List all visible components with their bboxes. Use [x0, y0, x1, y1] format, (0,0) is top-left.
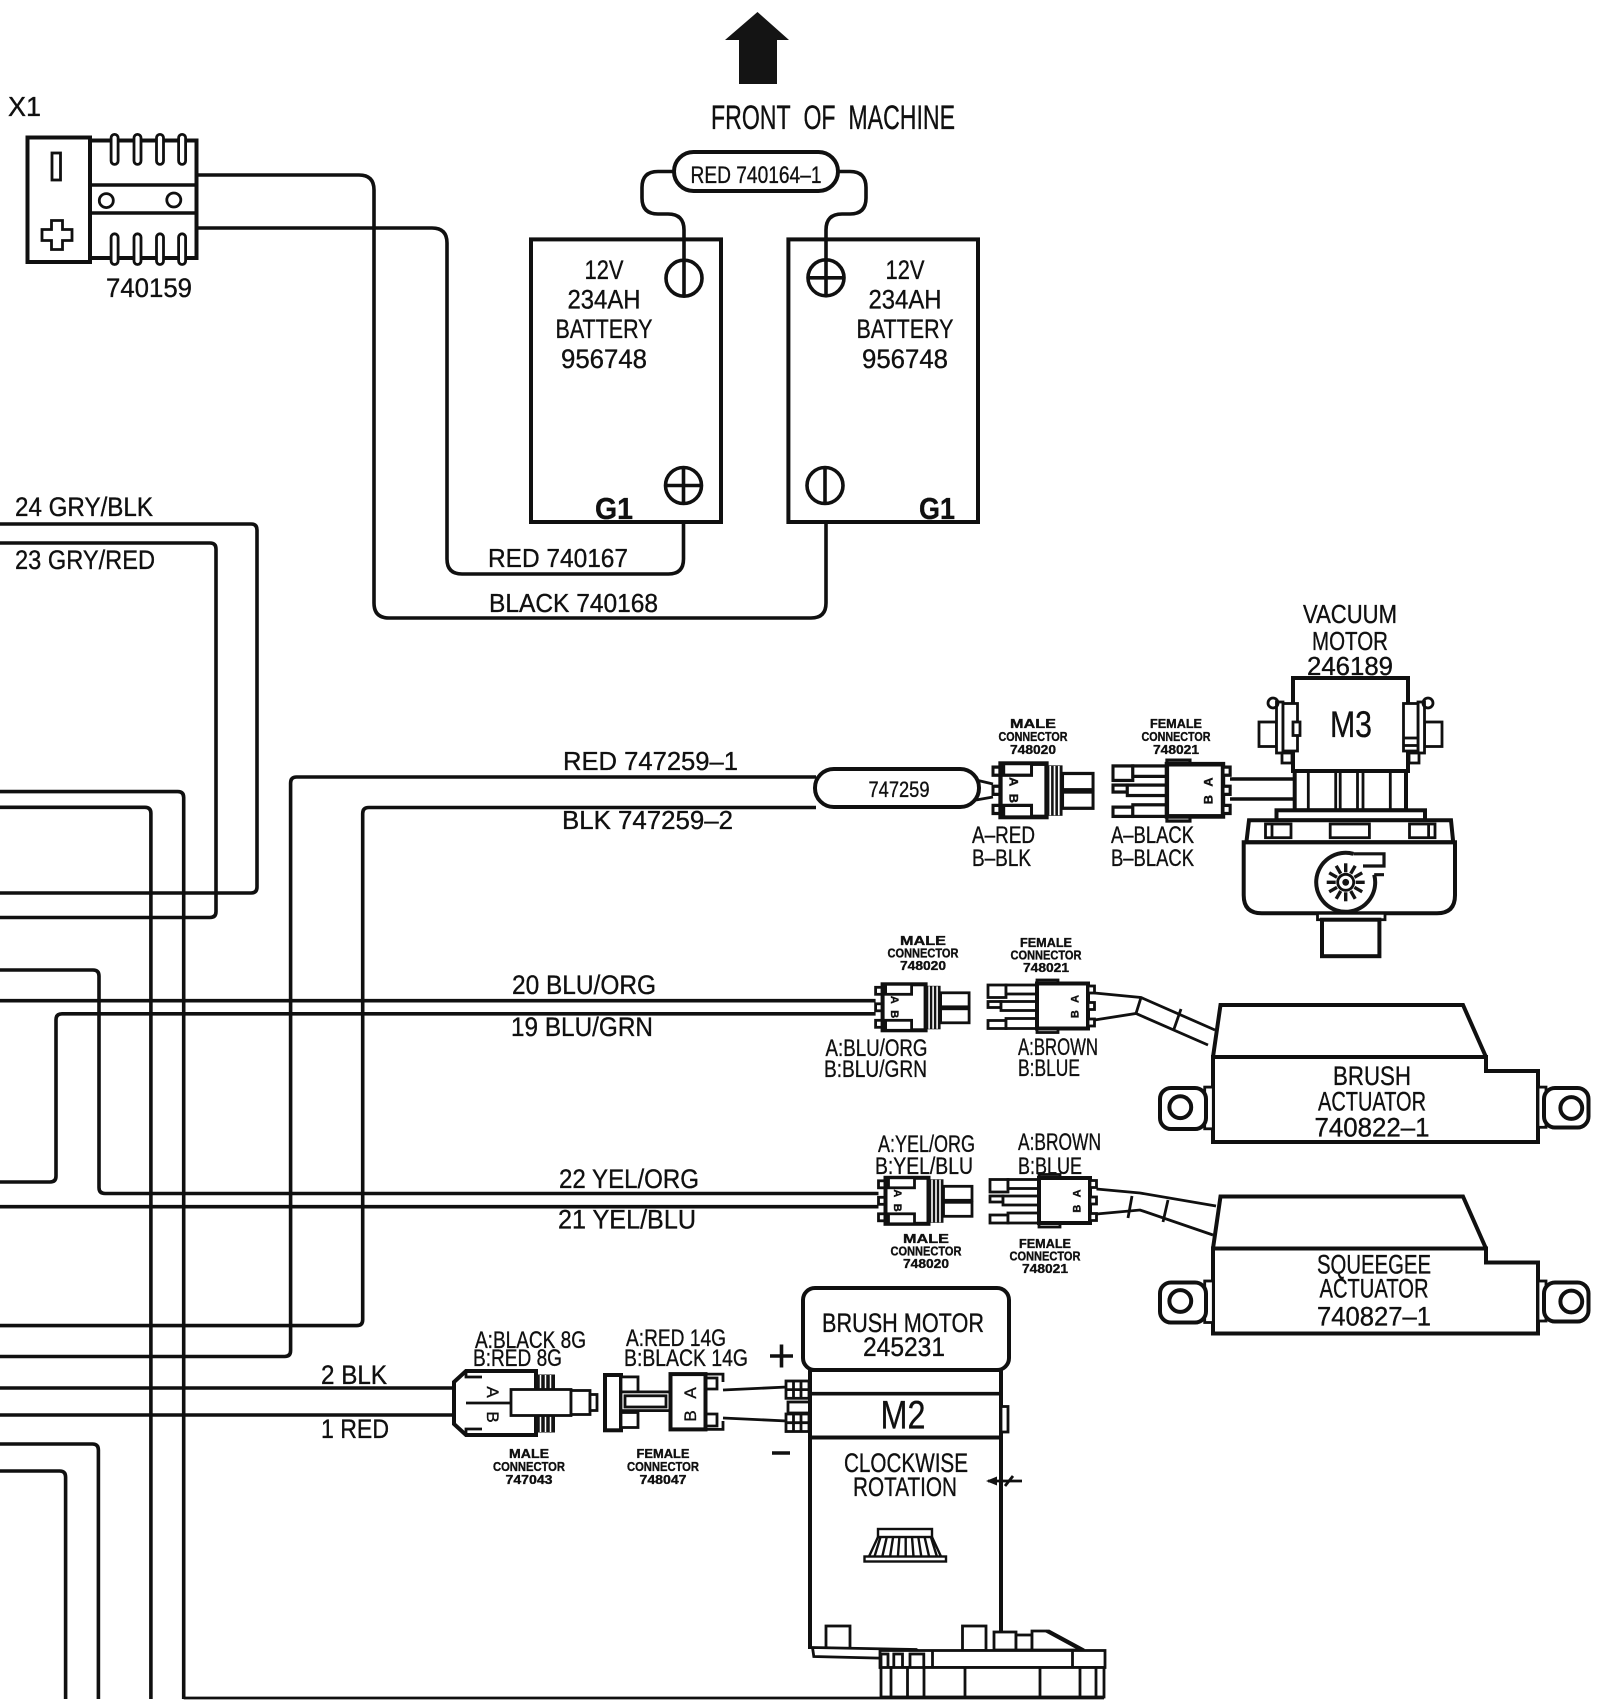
svg-text:X1: X1 — [8, 91, 41, 122]
svg-text:A:BROWN: A:BROWN — [1018, 1129, 1101, 1156]
svg-text:748020: 748020 — [900, 959, 946, 973]
svg-text:B–BLACK: B–BLACK — [1111, 845, 1194, 872]
svg-text:B:BLUE: B:BLUE — [1018, 1055, 1080, 1082]
svg-text:A: A — [681, 1387, 700, 1399]
svg-text:747259: 747259 — [869, 777, 930, 802]
svg-text:CONNECTOR: CONNECTOR — [1142, 730, 1211, 744]
svg-text:748020: 748020 — [1010, 743, 1056, 757]
svg-text:BLK 747259–2: BLK 747259–2 — [562, 805, 733, 835]
svg-text:M2: M2 — [881, 1394, 926, 1438]
svg-text:740827–1: 740827–1 — [1317, 1302, 1431, 1332]
svg-text:748021: 748021 — [1153, 743, 1199, 757]
svg-text:234AH: 234AH — [869, 285, 942, 315]
svg-text:RED 740167: RED 740167 — [488, 543, 628, 573]
svg-text:B: B — [483, 1411, 502, 1422]
svg-text:MALE: MALE — [1010, 717, 1056, 731]
svg-text:19 BLU/GRN: 19 BLU/GRN — [511, 1012, 653, 1042]
svg-text:B:YEL/BLU: B:YEL/BLU — [875, 1153, 973, 1180]
svg-text:FEMALE: FEMALE — [637, 1447, 690, 1461]
svg-text:B:BLACK 14G: B:BLACK 14G — [624, 1345, 748, 1372]
svg-text:20 BLU/ORG: 20 BLU/ORG — [512, 970, 656, 1000]
svg-text:BLACK 740168: BLACK 740168 — [489, 588, 658, 618]
svg-text:22 YEL/ORG: 22 YEL/ORG — [559, 1164, 699, 1194]
svg-text:CONNECTOR: CONNECTOR — [627, 1460, 699, 1474]
svg-text:956748: 956748 — [561, 344, 647, 374]
svg-text:740822–1: 740822–1 — [1315, 1113, 1430, 1143]
svg-text:G1: G1 — [595, 491, 633, 526]
svg-text:MALE: MALE — [509, 1447, 549, 1461]
svg-text:12V: 12V — [886, 255, 925, 285]
svg-text:245231: 245231 — [863, 1332, 945, 1362]
svg-text:747043: 747043 — [506, 1473, 553, 1487]
svg-text:956748: 956748 — [862, 344, 948, 374]
svg-text:748047: 748047 — [640, 1473, 687, 1487]
svg-text:G1: G1 — [919, 491, 955, 526]
svg-text:CONNECTOR: CONNECTOR — [999, 730, 1068, 744]
svg-text:740159: 740159 — [106, 273, 192, 303]
svg-text:24 GRY/BLK: 24 GRY/BLK — [15, 492, 153, 522]
svg-text:CONNECTOR: CONNECTOR — [493, 1460, 565, 1474]
svg-text:VACUUM: VACUUM — [1303, 599, 1397, 629]
svg-text:2 BLK: 2 BLK — [321, 1360, 387, 1390]
svg-text:BATTERY: BATTERY — [857, 314, 954, 344]
svg-text:748021: 748021 — [1023, 961, 1069, 975]
svg-text:M3: M3 — [1330, 704, 1372, 745]
svg-text:ROTATION: ROTATION — [853, 1472, 957, 1502]
svg-text:FEMALE: FEMALE — [1150, 717, 1202, 731]
svg-text:ACTUATOR: ACTUATOR — [1320, 1274, 1429, 1304]
svg-text:B:BLU/GRN: B:BLU/GRN — [824, 1056, 927, 1083]
svg-text:RED 740164–1: RED 740164–1 — [691, 162, 822, 189]
svg-text:B:RED 8G: B:RED 8G — [473, 1345, 562, 1372]
svg-text:A: A — [483, 1386, 502, 1398]
svg-text:12V: 12V — [585, 255, 624, 285]
svg-text:BATTERY: BATTERY — [556, 314, 653, 344]
svg-text:21 YEL/BLU: 21 YEL/BLU — [558, 1205, 696, 1235]
svg-text:RED 747259–1: RED 747259–1 — [563, 746, 738, 776]
svg-text:234AH: 234AH — [568, 285, 641, 315]
svg-text:1 RED: 1 RED — [321, 1414, 389, 1444]
svg-text:B–BLK: B–BLK — [972, 845, 1031, 872]
svg-text:FRONT OF MACHINE: FRONT OF MACHINE — [711, 99, 955, 137]
svg-text:748021: 748021 — [1022, 1262, 1068, 1276]
svg-text:B:BLUE: B:BLUE — [1018, 1153, 1082, 1180]
svg-text:23 GRY/RED: 23 GRY/RED — [15, 545, 155, 575]
svg-text:B: B — [681, 1410, 700, 1421]
svg-text:748020: 748020 — [903, 1257, 949, 1271]
